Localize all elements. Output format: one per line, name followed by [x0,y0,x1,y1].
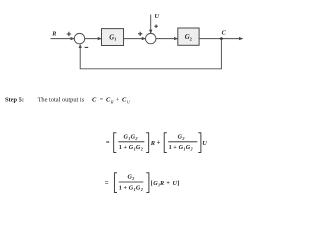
wire summing junction 1 to G1 [85,38,101,40]
svg-text:=: = [100,97,104,104]
svg-text:R: R [110,99,114,104]
svg-text:]: ] [177,180,179,187]
svg-text:+: + [166,180,170,187]
svg-text:C: C [222,29,227,36]
svg-text:The total output is: The total output is [38,97,85,104]
summing junction 2 [146,33,156,43]
wire G1 to summing junction 2 [124,38,146,40]
summing junction 1 [74,33,84,43]
svg-text:=: = [106,140,110,147]
svg-text:U: U [127,99,131,104]
equation 2: = [G2/(1+G1G2)][G1R + U] [105,173,180,193]
svg-text:U: U [202,140,207,147]
svg-text:R: R [51,31,56,38]
equation 1: = [G1G2/(1+G1G2)]R + [G2/(1+G1G2)]U [106,133,207,153]
wire U into summing junction 2 [150,15,152,34]
svg-text:1 +: 1 + [169,144,178,151]
right bracket eq2 fraction [146,173,149,193]
right bracket eq1 fraction 1 [146,133,149,153]
left bracket eq1 fraction 2 [164,133,167,153]
feedback wire down from node C [80,39,221,69]
svg-text:2: 2 [190,36,192,41]
svg-text:+: + [116,97,120,104]
wire R to summing junction 1 [51,38,75,40]
svg-text:R: R [150,140,156,147]
svg-text:2: 2 [134,136,137,141]
svg-text:2: 2 [140,147,143,152]
plus sign at summing junction 2 input [138,32,142,36]
wire summing junction 2 to G2 [156,38,178,40]
left bracket eq1 fraction 1 [114,133,117,153]
plus sign at summing junction 1 input [67,32,71,36]
block G2 [178,28,199,45]
node C junction dot [220,37,223,40]
svg-text:2: 2 [131,176,134,181]
block G1 [102,29,124,46]
minus sign at summing junction 1 feedback input [85,46,89,48]
svg-text:Step 5:: Step 5: [5,97,24,104]
fraction 2 bar [168,141,197,143]
svg-text:U: U [155,13,160,20]
svg-text:R: R [159,180,164,187]
plus sign at summing junction 2 U input [154,25,158,29]
fraction 1 bar [118,141,144,143]
right bracket eq1 fraction 2 [198,133,201,153]
svg-text:1 +: 1 + [119,184,128,191]
svg-text:1 +: 1 + [119,144,128,151]
wire G2 to output C [199,38,242,40]
left bracket eq2 fraction [114,173,117,193]
svg-text:2: 2 [190,147,193,152]
svg-text:=: = [105,180,109,187]
svg-text:+: + [157,139,161,146]
svg-text:1: 1 [114,37,116,42]
svg-text:2: 2 [140,187,143,192]
svg-text:2: 2 [181,136,184,141]
svg-text:C: C [92,97,97,104]
fraction bar [119,181,144,183]
